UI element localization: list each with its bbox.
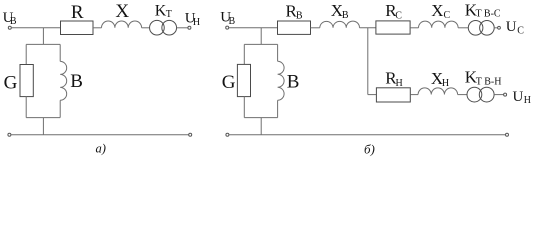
terminal (bottom-right) <box>506 133 509 136</box>
wire: left shunt branch lower lead <box>25 97 27 118</box>
svg-text:X: X <box>431 1 443 20</box>
terminal (input, top-left) <box>226 26 229 29</box>
svg-text:C: C <box>395 10 402 21</box>
svg-text:H: H <box>396 78 403 89</box>
wire: bottom bus <box>229 134 506 136</box>
svg-text:X: X <box>115 1 129 22</box>
node: top junction of shunt branch <box>42 28 44 45</box>
resistor R <box>61 21 94 35</box>
wire: right shunt branch upper lead <box>59 44 61 61</box>
wire: XC to transformer KT B-C <box>458 27 468 29</box>
svg-text:G: G <box>4 73 18 94</box>
svg-text:B: B <box>10 16 17 27</box>
wire: XB to branch node <box>360 27 376 29</box>
svg-text:U: U <box>506 19 517 35</box>
resistor RC <box>376 21 410 34</box>
transformer KT B-H <box>467 87 482 102</box>
wire: lower branch lead to RH <box>368 94 377 96</box>
svg-text:B: B <box>296 11 303 22</box>
svg-text:G: G <box>222 72 236 93</box>
svg-text:T: T <box>166 9 172 20</box>
wire: KT B-C to terminal UC <box>494 27 497 29</box>
conductance G <box>20 65 33 97</box>
wire: bottom bus <box>11 134 189 136</box>
inductor B (susceptance) <box>278 61 285 100</box>
node: top junction of shunt branch <box>260 28 262 45</box>
wire: shunt stem to bottom bus <box>260 118 262 135</box>
wire: RC to XC <box>410 27 418 29</box>
svg-text:T B-C: T B-C <box>476 9 501 20</box>
terminal (bottom-left) <box>226 133 229 136</box>
svg-text:H: H <box>442 78 449 89</box>
svg-text:R: R <box>71 2 84 23</box>
wire: left shunt branch upper lead <box>25 44 27 64</box>
inductor XB <box>320 21 360 28</box>
wire: right shunt branch lower lead <box>277 100 279 117</box>
resistor RH <box>376 88 410 102</box>
svg-text:a): a) <box>96 142 106 156</box>
inductor XH <box>418 88 458 95</box>
wire: left shunt branch upper lead <box>243 44 245 64</box>
wire: RB to XB <box>311 27 320 29</box>
wire: XH to transformer KT B-H <box>458 94 467 96</box>
wire: KT B-H to terminal UH <box>494 94 504 96</box>
wire: left shunt branch lower lead <box>243 97 245 118</box>
wire: KT to output terminal <box>177 27 188 29</box>
wire: input terminal to resistor RB <box>229 27 278 29</box>
wire: X to transformer KT <box>142 27 150 29</box>
inductor B (susceptance) <box>60 61 66 100</box>
svg-text:C: C <box>444 10 451 21</box>
inductor XC <box>419 21 459 28</box>
wire: right shunt branch lower lead <box>59 100 61 117</box>
resistor RB <box>278 21 311 34</box>
inductor X <box>102 21 142 28</box>
transformer KT <box>150 20 165 35</box>
svg-text:C: C <box>517 26 524 37</box>
svg-text:T B-H: T B-H <box>476 77 502 88</box>
svg-text:H: H <box>193 17 200 28</box>
terminal (input, top-left) <box>8 26 11 29</box>
wire: right shunt branch upper lead <box>277 44 279 61</box>
wire: input terminal to resistor R <box>11 27 60 29</box>
svg-text:B: B <box>70 71 83 92</box>
conductance G <box>237 64 250 96</box>
wire: vertical drop to lower (H) branch <box>367 28 369 95</box>
svg-text:B: B <box>229 16 236 27</box>
terminal (output UH) <box>504 93 507 96</box>
wire: shunt split bar (top) <box>244 43 277 45</box>
wire: RH to XH <box>410 94 418 96</box>
terminal (bottom-right) <box>189 133 192 136</box>
svg-text:U: U <box>513 89 524 105</box>
wire: shunt split bar (top) <box>26 43 60 45</box>
terminal (bottom-left) <box>8 133 11 136</box>
svg-text:B: B <box>287 72 300 93</box>
svg-text:б): б) <box>364 142 375 157</box>
svg-text:H: H <box>524 95 531 106</box>
terminal (output UC) <box>498 26 501 29</box>
wire: shunt stem to bottom bus <box>42 118 44 135</box>
svg-text:B: B <box>342 10 349 21</box>
wire: shunt join bar (bottom) <box>244 117 277 119</box>
transformer KT B-C <box>468 21 483 36</box>
wire: shunt join bar (bottom) <box>26 117 60 119</box>
wire: R to X <box>93 27 102 29</box>
terminal (output UH) <box>188 26 191 29</box>
